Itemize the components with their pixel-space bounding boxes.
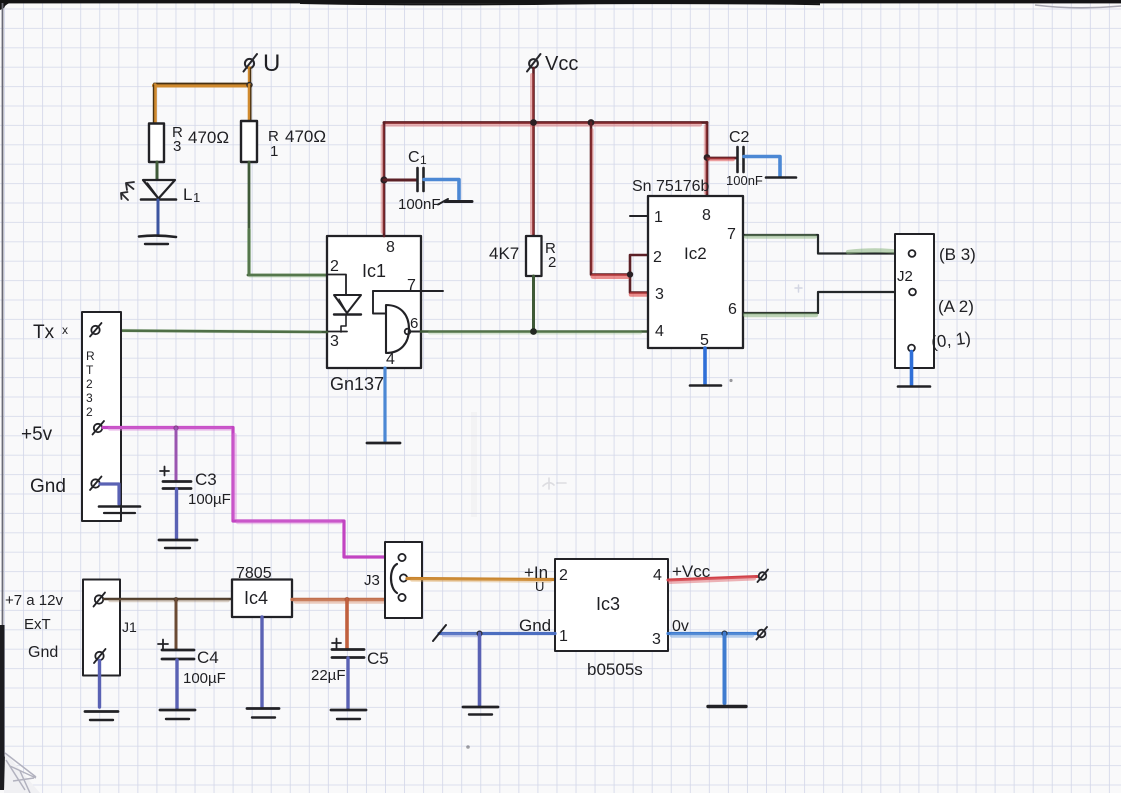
svg-text:b0505s: b0505s [587, 660, 643, 679]
svg-text:2: 2 [548, 254, 556, 271]
wire J1 pin2 to ground (blue-violet) [98, 661, 101, 708]
svg-text:Sn 75176b: Sn 75176b [632, 178, 710, 195]
svg-text:T: T [86, 363, 94, 377]
svg-text:U: U [535, 579, 544, 594]
wire IC2 pin7 to J2 (B3) [743, 235, 908, 254]
wire bus to C1/IC1 pin8 (dark red) [383, 123, 385, 237]
svg-text:Ic4: Ic4 [244, 588, 268, 608]
svg-text:Tx: Tx [33, 322, 55, 343]
wire C3 to ground (blue-violet) [175, 489, 178, 538]
opto-coupler IC1 box [327, 236, 421, 368]
svg-text:(B 3): (B 3) [939, 245, 976, 264]
wire IC3 gnd drop (blue-violet) [478, 634, 482, 706]
connector RT232 [82, 312, 121, 521]
junction C4 tap [174, 597, 179, 602]
pencil smudge [543, 478, 566, 489]
svg-text:Gnd: Gnd [30, 476, 66, 497]
svg-text:2: 2 [86, 405, 93, 419]
junction Vcc bus [530, 119, 537, 126]
LED L1 [141, 180, 200, 205]
svg-text:C2: C2 [729, 129, 750, 146]
wire IC4 out to J3 (salmon) [292, 600, 397, 602]
ground C2 [766, 176, 796, 179]
ground IC2 pin5 [690, 384, 721, 387]
ground J2 [898, 385, 930, 388]
wire J3 to IC3 +In (orange) [407, 579, 554, 582]
ground LED [139, 236, 176, 244]
wire U terminal drop (orange) [250, 68, 251, 85]
wire IC3 pin1 Gnd (blue) [433, 625, 555, 641]
junction 0v [722, 631, 728, 637]
wire IC1 pin4 to ground (blue) [383, 368, 386, 441]
svg-text:8: 8 [386, 239, 395, 256]
svg-text:J2: J2 [897, 268, 913, 285]
pencil marks [466, 285, 802, 749]
svg-text:6: 6 [728, 301, 737, 318]
svg-text:Ic2: Ic2 [684, 244, 707, 263]
svg-text:Gn137: Gn137 [330, 374, 384, 394]
wire Tx to IC1 pin3 (green) [102, 331, 327, 333]
svg-text:Ic1: Ic1 [362, 261, 386, 281]
resistor R2 [489, 236, 556, 276]
ground IC3 gnd [463, 707, 498, 715]
svg-text:100µF: 100µF [183, 670, 226, 687]
wire U top horizontal (orange) [154, 84, 250, 86]
terminal +Vcc out [758, 570, 769, 583]
svg-text:L: L [183, 185, 192, 204]
wire 0v drop (blue) [723, 634, 727, 704]
IC2 pin1 stub [630, 215, 648, 217]
wire C4 to ground (blue-violet) [175, 660, 178, 708]
converter IC3 b0505s [519, 559, 711, 679]
wire to R1 (orange) [250, 85, 251, 121]
terminal 0v out [757, 627, 768, 640]
junction C5 tap [345, 597, 350, 602]
svg-text:2: 2 [86, 377, 93, 391]
wire R1 to IC1 pin2 (green) [248, 162, 327, 276]
svg-text:C4: C4 [197, 648, 219, 667]
svg-text:22µF: 22µF [311, 667, 346, 684]
resistor R3 [149, 124, 229, 163]
svg-text:3: 3 [86, 391, 93, 405]
svg-text:ExT: ExT [24, 616, 51, 633]
svg-text:3: 3 [173, 138, 181, 155]
capacitor C1 [384, 149, 441, 213]
junction green bus [530, 328, 537, 335]
IC2 SN75176 box [632, 178, 743, 349]
svg-text:J1: J1 [122, 619, 137, 635]
svg-text:Vcc: Vcc [545, 53, 578, 75]
svg-text:R: R [86, 349, 95, 363]
svg-text:J3: J3 [364, 572, 380, 589]
svg-text:8: 8 [702, 207, 711, 224]
wire IC2 pin6 to J2 (A2) [743, 292, 908, 315]
wire bus to IC2 pins 2-3 (red) [591, 123, 652, 295]
capacitor C2 [707, 129, 763, 188]
terminal Vcc [527, 53, 578, 75]
wire C1 to ground (blue) [424, 180, 459, 200]
svg-text:3: 3 [652, 631, 661, 648]
svg-text:2: 2 [559, 567, 568, 584]
ground C3 [159, 540, 197, 548]
svg-text:100nF: 100nF [398, 196, 441, 213]
wire J1 to IC4 (brown) [104, 599, 232, 601]
svg-text:U: U [263, 50, 280, 77]
svg-text:100µF: 100µF [188, 491, 231, 508]
wire LED cathode (blue) [157, 200, 160, 235]
svg-text:1: 1 [559, 628, 568, 645]
svg-text:470Ω: 470Ω [188, 128, 229, 147]
page corner fold bottom-left [4, 752, 40, 793]
ground RT232 Gnd [99, 507, 140, 514]
green bus IC1 pin6 to IC2 pin4 [421, 332, 648, 333]
svg-text:+7 a 12v: +7 a 12v [5, 592, 63, 609]
svg-text:1: 1 [270, 143, 278, 160]
Vcc bus horizontal (dark red) [384, 123, 707, 125]
label Tx [33, 322, 68, 343]
wire R2 to green bus [532, 276, 535, 331]
terminal U [244, 50, 281, 77]
junction IC3 gnd [477, 631, 483, 637]
page edge top strip [0, 0, 1121, 10]
ground C1 [438, 199, 472, 205]
svg-text:(A 2): (A 2) [938, 297, 974, 316]
wire +5v to J3 (magenta) [103, 428, 397, 558]
junction U [246, 82, 252, 88]
ground IC1 pin4 [367, 442, 400, 445]
ground IC4 [247, 709, 279, 718]
connector J2 [895, 234, 976, 368]
svg-text:100nF: 100nF [726, 173, 763, 188]
wire bus to IC2 pin8 (dark red) [706, 123, 708, 197]
svg-text:6: 6 [410, 315, 418, 332]
wire J2 pin1 to ground (blue) [910, 352, 914, 386]
wire Gnd connector to ground (blue) [100, 484, 119, 504]
svg-text:7805: 7805 [236, 565, 272, 582]
svg-text:4: 4 [655, 323, 664, 340]
junction C2 [704, 154, 711, 161]
junction C3 tap [173, 425, 178, 430]
svg-text:1: 1 [654, 209, 663, 226]
svg-text:3: 3 [655, 286, 664, 303]
svg-text:1: 1 [420, 153, 427, 167]
ground J1 [85, 712, 118, 721]
junction bus mid [588, 119, 595, 126]
capacitor C4 [158, 600, 226, 688]
svg-text:2: 2 [653, 249, 662, 266]
svg-text:C: C [408, 149, 420, 166]
junction IC2 pin2/3 [627, 271, 633, 277]
wire Vcc vertical (dark red) [532, 68, 534, 236]
svg-text:2: 2 [330, 258, 339, 275]
ground 0v [708, 705, 746, 708]
wire C2 to ground (blue) [744, 157, 780, 177]
svg-text:C3: C3 [195, 470, 217, 489]
svg-text:x: x [62, 323, 68, 337]
svg-text:470Ω: 470Ω [285, 127, 326, 146]
svg-text:Gnd: Gnd [28, 644, 58, 661]
wire C5 to ground (blue-violet) [346, 658, 349, 708]
svg-text:3: 3 [330, 333, 339, 350]
IC1 internal LED [327, 275, 361, 333]
wire IC3 pin4 +Vcc (red) [668, 577, 757, 583]
svg-text:+5v: +5v [21, 424, 53, 445]
wire IC4 gnd (blue-violet) [260, 617, 263, 707]
ground C5 [331, 710, 366, 719]
connector J3 [364, 542, 422, 618]
svg-text:4K7: 4K7 [489, 244, 519, 263]
capacitor C3 [160, 428, 231, 508]
svg-text:7: 7 [727, 226, 736, 243]
connector J1 [83, 580, 137, 676]
wire IC2 pin5 to ground (blue) [703, 348, 707, 384]
resistor R1 [241, 121, 326, 162]
wire to R3 (orange) [154, 85, 156, 123]
wire R3 to LED (green) [156, 162, 159, 179]
IC1 internal gate [373, 291, 443, 353]
capacitor C5 [311, 600, 730, 685]
ground C4 [160, 710, 195, 719]
page edge left [0, 3, 8, 790]
LED emission arrows [121, 182, 134, 200]
junction C1 [380, 176, 387, 183]
wire IC3 pin3 0v (blue) [668, 634, 756, 636]
svg-text:Ic3: Ic3 [596, 594, 620, 614]
svg-text:4: 4 [653, 567, 662, 584]
regulator IC4 7805 [232, 565, 292, 617]
svg-text:C5: C5 [367, 649, 389, 668]
svg-text:1: 1 [193, 190, 200, 205]
